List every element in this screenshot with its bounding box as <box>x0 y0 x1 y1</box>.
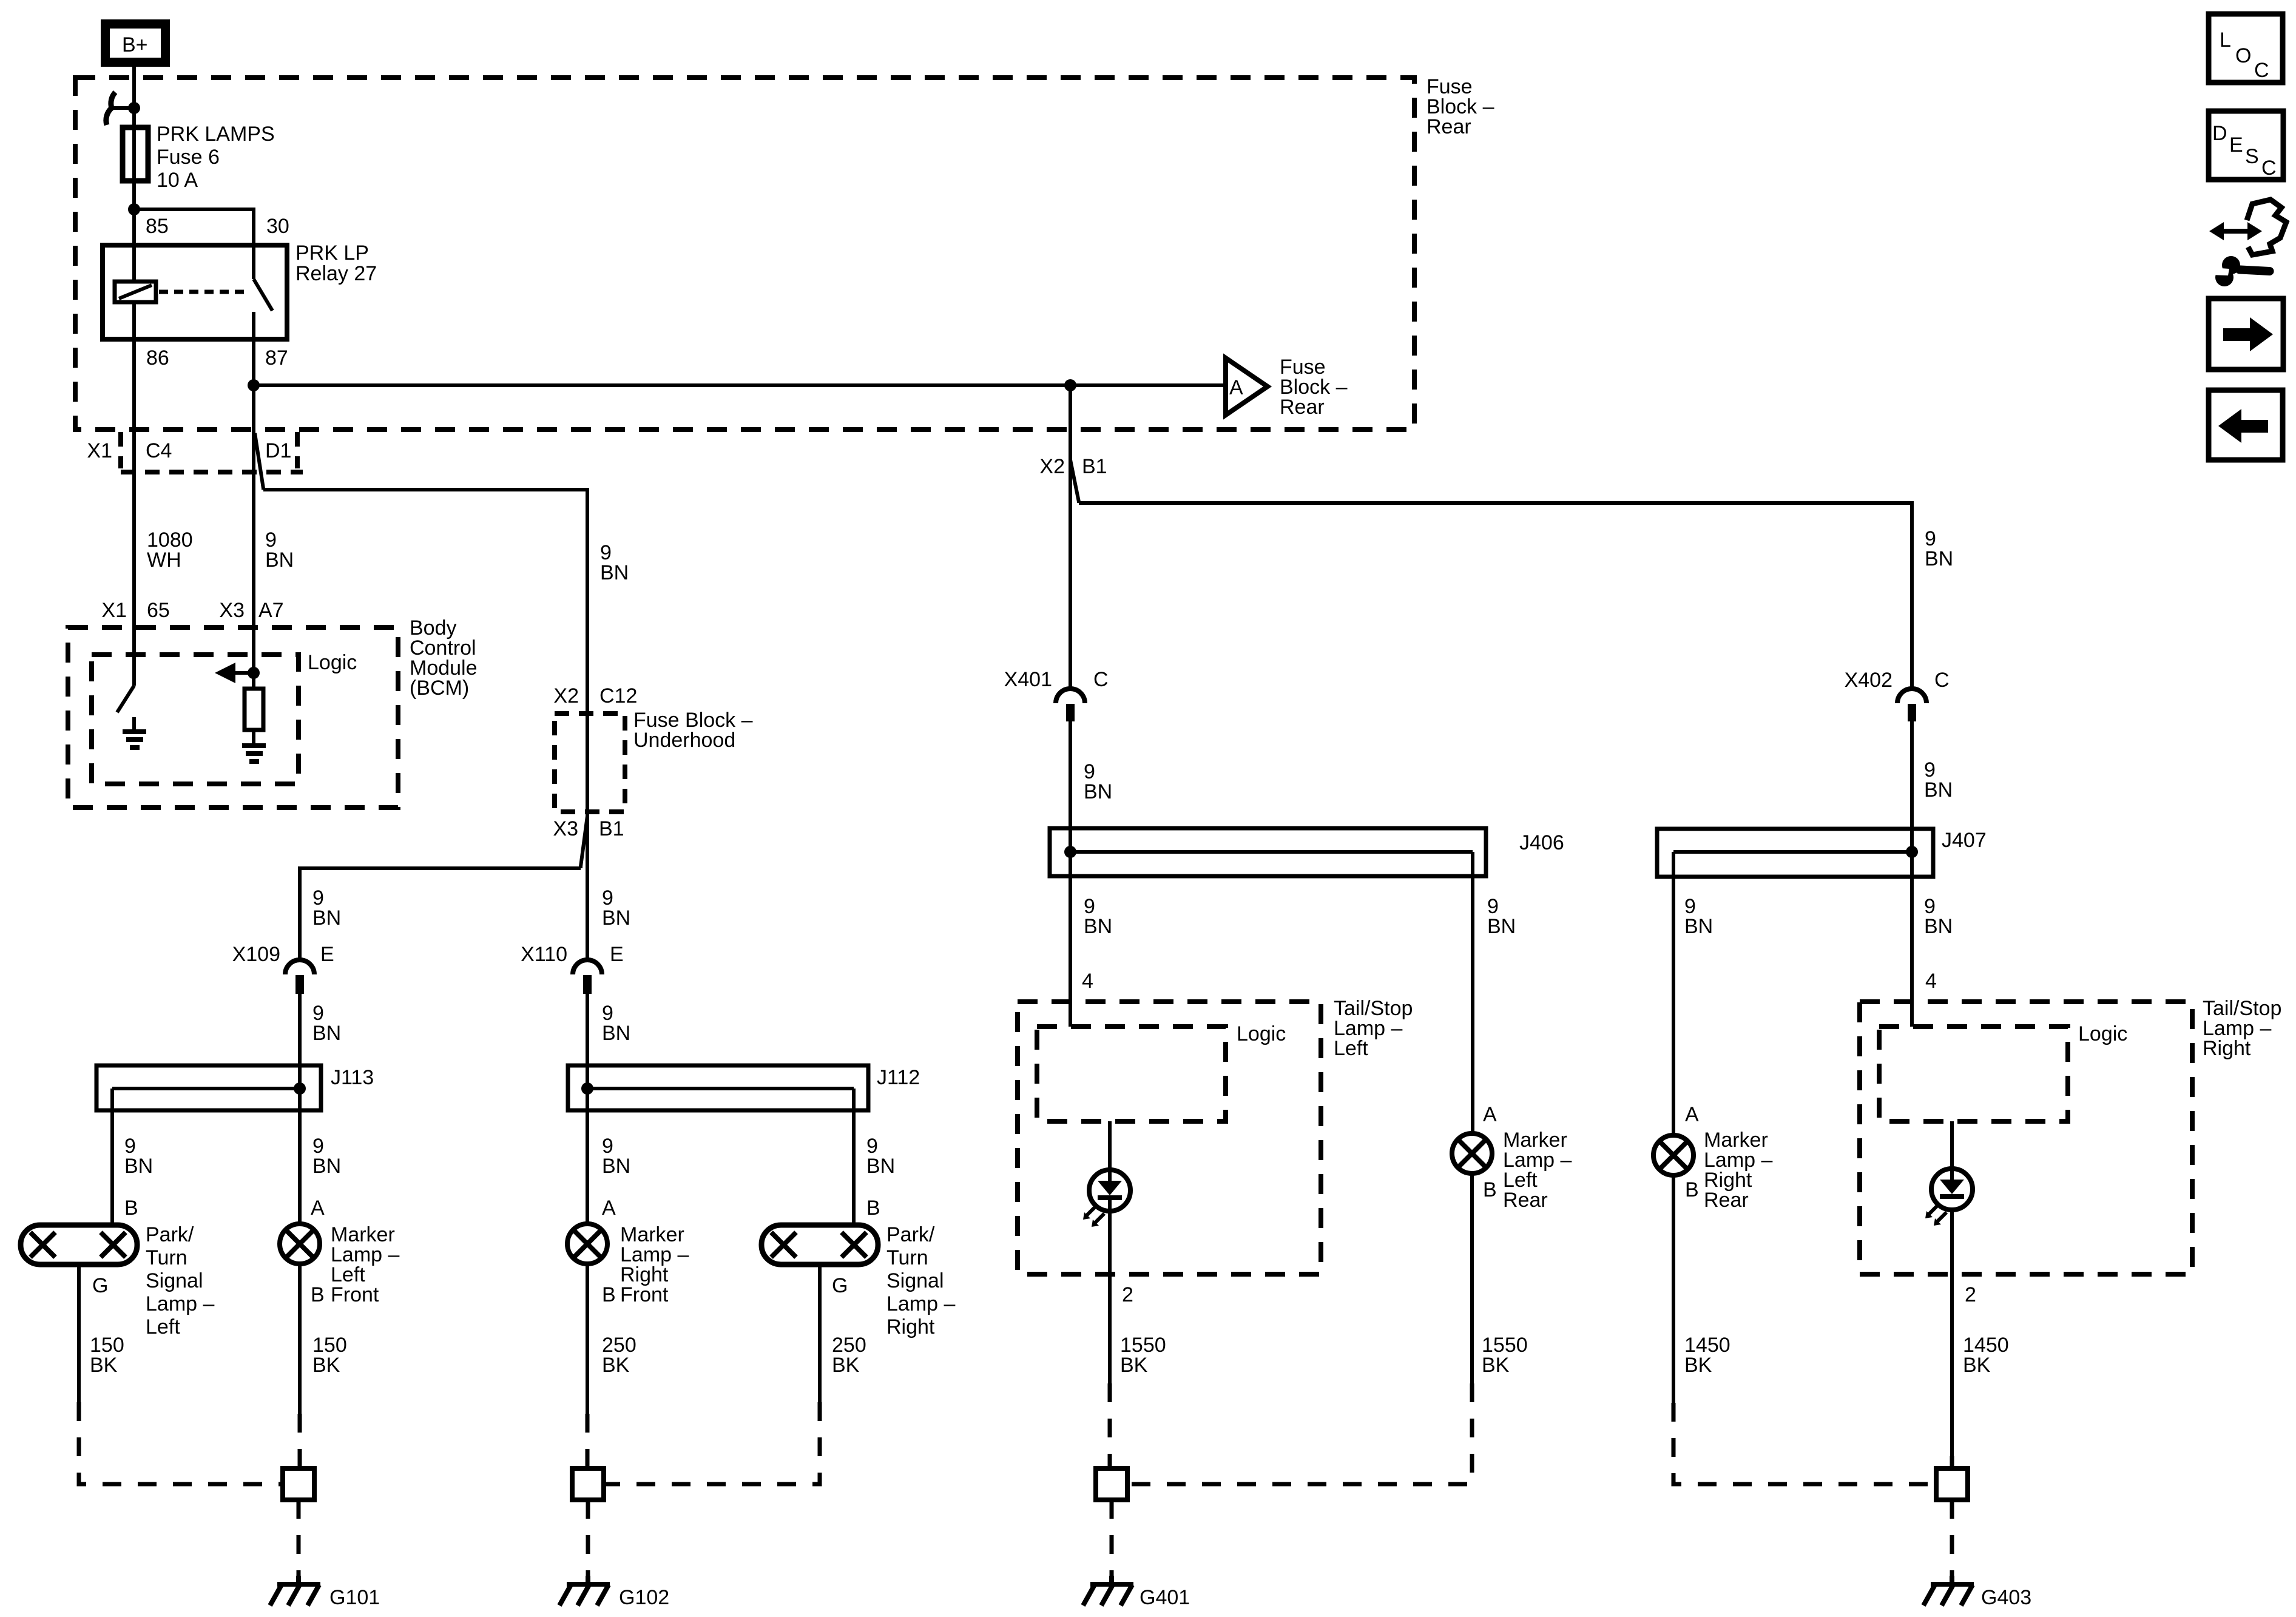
wire X402 to J407 <box>1910 721 1914 852</box>
LED lamp right <box>1931 1121 1973 1456</box>
svg-text:4: 4 <box>1925 970 1937 993</box>
tail/stop lamp left dashed box <box>1018 997 1413 1274</box>
icon next arrow box <box>2209 299 2283 370</box>
connector row X1 C4 D1 <box>87 432 303 472</box>
wire J112 dot down to marker lamp <box>586 1089 589 1224</box>
label 1450 BK led right <box>1963 1334 2009 1377</box>
wire marker RF down <box>586 1264 589 1414</box>
label 1080 WH <box>147 528 193 572</box>
svg-text:4: 4 <box>1082 970 1093 993</box>
svg-text:Rear: Rear <box>1704 1189 1749 1212</box>
svg-text:BN: BN <box>1924 915 1953 938</box>
svg-text:86: 86 <box>146 346 169 370</box>
svg-text:B: B <box>1483 1178 1497 1201</box>
wire marker RR down <box>1672 1175 1675 1403</box>
wire fuse output to relay pin 85 <box>132 209 136 282</box>
wire marker LR down <box>1470 1173 1474 1383</box>
svg-text:BK: BK <box>1684 1354 1712 1377</box>
svg-text:Logic: Logic <box>2078 1022 2127 1045</box>
fuse PRK LAMPS Fuse 6 10A <box>123 123 275 192</box>
label 9 BN below X109 <box>312 1002 341 1045</box>
svg-text:2: 2 <box>1965 1283 1976 1306</box>
marker lamp right rear <box>1653 1103 1772 1212</box>
icon LOC box <box>2209 14 2283 83</box>
wire mid rail to underhood column <box>263 490 587 814</box>
node junction 87 line <box>248 379 260 391</box>
label 9 BN at X402 drop <box>1925 527 1953 570</box>
label 9 BN J113 right <box>312 1135 341 1178</box>
label 1550 BK led left <box>1120 1334 1166 1377</box>
svg-text:C: C <box>2254 59 2269 82</box>
connector X401 C <box>1004 668 1109 721</box>
svg-text:C: C <box>2261 157 2277 180</box>
svg-text:J112: J112 <box>877 1066 920 1089</box>
ground G101 <box>270 1576 380 1609</box>
arrow logic sense left <box>215 663 254 683</box>
wire B1 jog to left rail <box>581 816 587 868</box>
wire J407 right leg down to logic <box>1910 852 1914 1027</box>
ground distribution box G102 <box>572 1468 604 1500</box>
svg-text:J406: J406 <box>1519 831 1564 854</box>
svg-text:D: D <box>2212 122 2227 145</box>
LED lamp left <box>1089 1121 1130 1383</box>
wire relay 87 down to D1 <box>252 339 255 432</box>
dashed ground wire led right <box>1950 1456 1954 1468</box>
svg-text:Left: Left <box>146 1315 180 1338</box>
label 150 BK marker LF <box>312 1334 347 1377</box>
svg-text:A: A <box>602 1197 616 1220</box>
svg-text:BK: BK <box>602 1354 630 1377</box>
svg-text:87: 87 <box>265 346 288 370</box>
wire fuse output to relay pin 30 <box>134 209 254 245</box>
connector X402 C <box>1845 669 1950 721</box>
svg-text:B: B <box>866 1197 880 1220</box>
label 9 BN J406 left <box>1084 895 1112 938</box>
svg-text:BN: BN <box>312 1155 341 1178</box>
tail/stop lamp right dashed box <box>1860 997 2281 1274</box>
svg-text:65: 65 <box>147 599 170 622</box>
ground G102 <box>559 1576 669 1609</box>
svg-text:X1: X1 <box>101 599 127 622</box>
svg-text:X110: X110 <box>521 943 567 966</box>
svg-text:BN: BN <box>1925 547 1953 570</box>
label 9 BN at A7 drop <box>265 528 294 572</box>
wire B1 down to X110 <box>586 814 589 960</box>
svg-text:Fuse 6: Fuse 6 <box>157 146 220 169</box>
dashed ground wire marker LR <box>1127 1383 1472 1484</box>
svg-text:X3: X3 <box>219 599 245 622</box>
splice J406 <box>1050 828 1564 876</box>
svg-text:B: B <box>124 1197 138 1220</box>
label 250 BK marker RF <box>602 1334 636 1377</box>
svg-text:B1: B1 <box>599 817 624 840</box>
label 150 BK left <box>90 1334 124 1377</box>
svg-text:X109: X109 <box>232 943 280 966</box>
connector X110 E <box>521 943 624 994</box>
svg-text:J407: J407 <box>1942 829 1987 852</box>
connector X2 B1 at fuse block rear <box>1039 455 1107 478</box>
wire left rail to X109 column <box>300 868 581 960</box>
resistor in BCM <box>245 689 263 730</box>
svg-text:C: C <box>1934 669 1950 692</box>
svg-text:G102: G102 <box>619 1586 669 1609</box>
wire park left G down <box>77 1264 81 1402</box>
relay coil <box>115 282 156 302</box>
node fuse output junction <box>128 203 140 215</box>
label 9 BN J407 left <box>1684 895 1713 938</box>
BCM switch on pin 65 <box>117 686 134 712</box>
ground distribution box G101 <box>283 1468 314 1500</box>
wire 87 feed to fuse block rear triangle A <box>254 383 1226 387</box>
wire right rail to X402 <box>1079 503 1912 689</box>
wire J113 dot down to marker lamp <box>298 1089 302 1224</box>
svg-text:PRK LAMPS: PRK LAMPS <box>157 123 275 146</box>
svg-text:10 A: 10 A <box>157 169 198 192</box>
connector X2 C12 <box>553 684 637 707</box>
out-arrow A to fuse block rear <box>1226 356 1348 419</box>
connector X3 B1 <box>553 817 624 840</box>
connector X109 E <box>232 943 334 994</box>
svg-text:30: 30 <box>266 215 289 238</box>
svg-text:2: 2 <box>1122 1283 1133 1306</box>
relay switch blade pin 30 to 87 <box>254 245 272 339</box>
fuse block rear dashed box <box>75 75 1494 430</box>
svg-text:BK: BK <box>1963 1354 1991 1377</box>
relay coil-switch dashed link <box>159 290 250 294</box>
svg-text:X3: X3 <box>553 817 578 840</box>
label 9 BN J112 right <box>866 1135 895 1178</box>
svg-text:A7: A7 <box>258 599 284 622</box>
label 9 BN above X110 <box>602 886 630 930</box>
dashed ground wire park right <box>604 1402 820 1484</box>
wire A7 node to resistor and ground <box>252 673 255 689</box>
svg-text:WH: WH <box>147 549 181 572</box>
svg-text:Turn: Turn <box>886 1246 928 1269</box>
wire X109 to J113 <box>298 994 302 1089</box>
svg-text:Turn: Turn <box>146 1246 187 1269</box>
svg-text:D1: D1 <box>265 439 291 462</box>
svg-text:BK: BK <box>1120 1354 1148 1377</box>
splice J113 <box>96 1065 374 1110</box>
svg-text:A: A <box>1229 376 1243 399</box>
svg-text:Rear: Rear <box>1280 396 1325 419</box>
bus clip symbol at fuse feed <box>106 92 140 125</box>
svg-text:Relay 27: Relay 27 <box>295 262 377 285</box>
svg-text:BN: BN <box>1487 915 1516 938</box>
svg-text:BN: BN <box>602 906 630 930</box>
splice J112 <box>568 1065 920 1110</box>
BCM switch ground stub <box>132 717 136 732</box>
marker lamp left front <box>280 1197 399 1306</box>
wire J407 left leg to marker lamp right rear <box>1672 852 1675 1135</box>
svg-text:S: S <box>2245 145 2259 168</box>
svg-text:BK: BK <box>90 1354 118 1377</box>
label 9 BN below X401 <box>1084 760 1112 803</box>
svg-text:BN: BN <box>312 1022 341 1045</box>
svg-text:BN: BN <box>602 1155 630 1178</box>
svg-text:X1: X1 <box>87 439 112 462</box>
svg-text:Logic: Logic <box>1237 1022 1286 1045</box>
svg-text:B+: B+ <box>122 33 148 56</box>
BCM logic dashed box <box>92 651 357 784</box>
node junction to X2 B1 drop <box>1064 379 1076 391</box>
ground distribution box G403 <box>1936 1468 1968 1500</box>
svg-text:Rear: Rear <box>1427 115 1471 138</box>
wire X401 to J406 <box>1069 721 1072 852</box>
label 9 BN J407 right <box>1924 895 1953 938</box>
wire park right G down <box>818 1264 822 1402</box>
label 250 BK right <box>832 1334 866 1377</box>
dashed ground wire led left <box>1108 1383 1112 1468</box>
svg-text:Park/: Park/ <box>146 1223 194 1246</box>
battery feed B+ symbol <box>106 24 166 62</box>
svg-text:G: G <box>92 1274 108 1297</box>
svg-text:Right: Right <box>886 1315 935 1338</box>
marker lamp left rear <box>1452 1103 1572 1212</box>
fuse block underhood dashed box <box>555 709 753 812</box>
svg-text:C12: C12 <box>599 684 637 707</box>
svg-text:Logic: Logic <box>308 651 357 674</box>
wire X2 B1 down toward X401 <box>1069 385 1072 689</box>
LED left emission arrows <box>1083 1206 1104 1227</box>
label 9 BN below X110 <box>602 1002 630 1045</box>
svg-text:BN: BN <box>1684 915 1713 938</box>
connector row X1 65 X3 A7 <box>101 599 283 622</box>
dashed ground wire park left <box>79 1402 283 1484</box>
ground signal bars right <box>242 746 266 761</box>
label 1550 BK marker LR <box>1482 1334 1528 1377</box>
label 9 BN J112 left <box>602 1135 630 1178</box>
dashed ground wire marker RF <box>586 1414 590 1468</box>
svg-text:Underhood: Underhood <box>633 729 735 752</box>
ground G401 <box>1083 1576 1190 1609</box>
svg-text:BN: BN <box>866 1155 895 1178</box>
svg-text:BK: BK <box>312 1354 340 1377</box>
wire J112 right leg to park lamp B <box>852 1089 856 1225</box>
body control module BCM dashed box <box>68 616 478 808</box>
svg-text:X2: X2 <box>1039 455 1065 478</box>
svg-text:Signal: Signal <box>146 1269 203 1292</box>
svg-text:BN: BN <box>312 906 341 930</box>
splice J407 <box>1657 829 1987 877</box>
label 9 BN above X109 <box>312 886 341 930</box>
ground signal bars left <box>123 732 146 748</box>
dashed wire below G101 <box>297 1500 301 1578</box>
marker lamp right front <box>567 1197 689 1306</box>
svg-text:BN: BN <box>124 1155 153 1178</box>
svg-text:Rear: Rear <box>1503 1189 1548 1212</box>
wire J113 left leg to park lamp B <box>110 1089 114 1225</box>
svg-text:B1: B1 <box>1082 455 1107 478</box>
wire D1 branch jog to mid rail <box>255 433 263 490</box>
dashed wire below G401 <box>1110 1500 1114 1578</box>
svg-text:X402: X402 <box>1845 669 1893 692</box>
svg-text:E: E <box>610 943 624 966</box>
ground G403 <box>1923 1576 2031 1609</box>
park/turn signal lamp right <box>761 1197 955 1338</box>
logic dashed box left tail lamp <box>1037 1022 1286 1121</box>
svg-text:BK: BK <box>1482 1354 1510 1377</box>
svg-text:C4: C4 <box>146 439 172 462</box>
dashed wire below G102 <box>586 1500 590 1578</box>
svg-text:B: B <box>311 1283 325 1306</box>
svg-text:Right: Right <box>2203 1037 2251 1060</box>
wire X110 to J112 <box>586 994 589 1089</box>
wire J406 right leg to marker lamp left rear <box>1471 852 1474 1134</box>
svg-text:BN: BN <box>1084 780 1112 803</box>
svg-text:BN: BN <box>602 1022 630 1045</box>
wire B+ down to fuse junction <box>132 67 136 209</box>
logic dashed box right tail lamp <box>1879 1022 2127 1121</box>
svg-text:B: B <box>602 1283 616 1306</box>
label 9 BN J406 right <box>1487 895 1516 938</box>
svg-text:G401: G401 <box>1140 1586 1190 1609</box>
icon DESC box <box>2209 111 2283 180</box>
svg-text:BN: BN <box>600 561 629 584</box>
dashed ground wire marker RR <box>1673 1403 1936 1484</box>
svg-text:L: L <box>2220 29 2231 52</box>
svg-text:Left: Left <box>1334 1037 1368 1060</box>
svg-text:Signal: Signal <box>886 1269 944 1292</box>
svg-text:G403: G403 <box>1981 1586 2031 1609</box>
wire relay 86 down <box>132 302 136 686</box>
svg-text:BN: BN <box>1924 778 1953 802</box>
park/turn signal lamp left <box>21 1197 214 1338</box>
svg-text:X2: X2 <box>553 684 579 707</box>
svg-text:Front: Front <box>331 1283 379 1306</box>
wire B1 branch jog to right rail <box>1070 460 1079 503</box>
label 9 BN below X402 <box>1924 758 1953 802</box>
svg-text:Park/: Park/ <box>886 1223 935 1246</box>
label 1450 BK marker RR <box>1684 1334 1730 1377</box>
node BCM A7 input <box>248 667 260 679</box>
svg-text:G101: G101 <box>329 1586 380 1609</box>
svg-text:Lamp –: Lamp – <box>146 1292 214 1315</box>
wire J406 left leg down to logic <box>1069 852 1072 1027</box>
ground distribution box G401 <box>1096 1468 1127 1500</box>
icon wiring tool <box>2209 200 2286 286</box>
svg-text:O: O <box>2235 44 2251 67</box>
svg-text:PRK LP: PRK LP <box>295 241 369 265</box>
svg-text:B: B <box>1685 1178 1699 1201</box>
svg-text:BN: BN <box>1084 915 1112 938</box>
wire D1 down to BCM A7 <box>252 432 255 673</box>
svg-text:BK: BK <box>832 1354 860 1377</box>
label 9 BN J113 left <box>124 1135 153 1178</box>
svg-text:E: E <box>320 943 334 966</box>
svg-text:(BCM): (BCM) <box>410 677 469 700</box>
relay PRK LP Relay 27 <box>103 215 377 370</box>
svg-text:G: G <box>832 1274 848 1297</box>
svg-text:A: A <box>1483 1103 1497 1126</box>
svg-text:Front: Front <box>620 1283 669 1306</box>
wire marker LF down <box>298 1264 302 1414</box>
dashed ground wire marker LF <box>298 1414 302 1468</box>
svg-text:C: C <box>1093 668 1109 691</box>
LED right emission arrows <box>1925 1205 1947 1226</box>
icon back arrow box <box>2209 390 2283 460</box>
svg-text:A: A <box>311 1197 325 1220</box>
svg-text:85: 85 <box>146 215 169 238</box>
svg-text:X401: X401 <box>1004 668 1052 691</box>
svg-text:E: E <box>2229 133 2243 157</box>
label 9 BN underhood drop <box>600 541 629 584</box>
svg-text:J113: J113 <box>331 1066 374 1089</box>
svg-text:Lamp –: Lamp – <box>886 1292 955 1315</box>
dashed wire below G403 <box>1950 1500 1954 1578</box>
svg-text:A: A <box>1685 1103 1699 1126</box>
svg-text:BN: BN <box>265 549 294 572</box>
